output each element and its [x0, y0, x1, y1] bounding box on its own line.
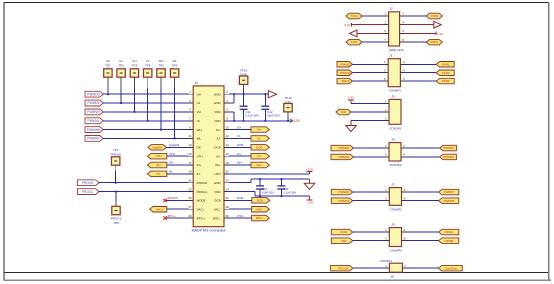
svg-text:10: 10: [226, 125, 230, 129]
svg-text:14: 14: [226, 143, 230, 147]
svg-text:PWMUL: PWMUL: [87, 101, 99, 105]
svg-text:1.5V: 1.5V: [307, 201, 313, 205]
capacitor C11: [240, 94, 259, 122]
pin 20 stub: [224, 170, 229, 174]
wire PWM03: [401, 156, 440, 158]
svg-text:VAC-: VAC-: [214, 207, 221, 211]
svg-text:PWMVL: PWMVL: [88, 119, 100, 123]
wire GND rail: [234, 93, 268, 95]
svg-text:PWMWL: PWMWL: [87, 137, 100, 141]
svg-text:DIR: DIR: [341, 239, 347, 243]
net label PAR3: [337, 78, 353, 84]
svg-text:IW+: IW+: [257, 163, 263, 167]
svg-text:P3010: P3010: [445, 230, 454, 234]
pin 19 stub: [188, 170, 193, 174]
svg-text:P3008: P3008: [445, 239, 454, 243]
svg-text:TXD1: TXD1: [350, 40, 358, 44]
connector J3: [388, 54, 401, 93]
svg-text:PAR2: PAR2: [442, 71, 450, 75]
svg-text:WH: WH: [159, 59, 164, 63]
svg-text:PWM06: PWM06: [338, 190, 349, 194]
port PWMUH: [85, 91, 103, 97]
svg-text:3: 3: [385, 236, 387, 240]
connector J4 MADK M3 Connector: [192, 81, 227, 232]
wire 3.3V rail: [234, 120, 291, 122]
svg-text:IV+: IV+: [237, 152, 242, 156]
svg-text:PAR1: PAR1: [442, 62, 450, 66]
svg-text:6: 6: [403, 77, 405, 81]
svg-text:PROG1: PROG1: [111, 217, 122, 221]
svg-text:VH: VH: [197, 110, 201, 114]
svg-text:3.3V: 3.3V: [285, 100, 291, 104]
wire IN- to pin 19: [167, 170, 189, 174]
svg-text:IPFC-: IPFC-: [213, 216, 221, 220]
port PWMVL: [85, 118, 103, 124]
wire pin 28 VAC-: [229, 208, 252, 210]
svg-text:6: 6: [226, 108, 228, 112]
net label PWM02: [331, 154, 354, 160]
svg-text:2: 2: [402, 12, 404, 16]
no-connect X pin 25: [163, 199, 167, 203]
svg-text:PWM01: PWM01: [443, 146, 454, 150]
wire PWM07: [402, 191, 439, 193]
svg-text:MODE: MODE: [197, 199, 206, 203]
pin 15 stub: [188, 152, 193, 156]
pin 13 stub: [188, 143, 193, 147]
wire PWMVH to pin 5: [103, 111, 188, 113]
svg-text:IN-: IN-: [197, 172, 201, 176]
wire JOG1: [353, 231, 390, 233]
net label PAR2: [436, 70, 454, 76]
svg-text:28: 28: [226, 205, 230, 209]
svg-text:+15V: +15V: [214, 172, 221, 176]
port PWMUL: [85, 100, 103, 106]
svg-text:IU-: IU-: [257, 137, 261, 141]
wire PWM11: [353, 63, 389, 65]
no-connect X pin 29: [163, 216, 167, 220]
svg-text:VAC-: VAC-: [256, 207, 263, 211]
svg-text:VDD: VDD: [214, 190, 221, 194]
svg-text:IU+: IU+: [257, 128, 262, 132]
test point TP13 (GND): [239, 68, 247, 84]
svg-text:IPFC-: IPFC-: [237, 214, 245, 218]
svg-text:15: 15: [188, 152, 192, 156]
wire PWMVL to pin 7: [103, 120, 188, 122]
net label GateDrive: [438, 265, 462, 271]
svg-text:VTH: VTH: [156, 154, 162, 158]
net label IW+: [251, 162, 269, 168]
svg-text:IN+: IN+: [169, 161, 174, 165]
power arrow left pin 5: [350, 30, 389, 37]
test point TP4 (VL): [144, 59, 152, 77]
pin 23 stub: [188, 187, 193, 191]
svg-text:PWM04: PWM04: [338, 199, 349, 203]
wire IN+ to pin 17: [167, 161, 189, 165]
svg-text:30: 30: [226, 214, 230, 218]
wire TXD1: [362, 41, 389, 43]
svg-text:5: 5: [189, 108, 191, 112]
svg-text:1: 1: [385, 228, 387, 232]
net label PWM10: [337, 70, 353, 76]
port PROG0: [78, 180, 100, 186]
svg-text:0.1uF 50V: 0.1uF 50V: [283, 190, 296, 194]
svg-text:24: 24: [226, 187, 230, 191]
svg-text:CON3P1: CON3P1: [389, 126, 402, 130]
wire pin 29 (IPFC+): [165, 214, 188, 218]
svg-text:PWMVH: PWMVH: [87, 110, 100, 114]
svg-text:26: 26: [226, 196, 230, 200]
pin 2 stub: [224, 90, 229, 94]
wire TP6 to row 6: [174, 77, 176, 139]
svg-text:PWM11: PWM11: [340, 62, 351, 66]
pin 1 stub: [188, 90, 193, 94]
svg-text:IV+: IV+: [257, 154, 262, 158]
pin 17 stub: [188, 161, 193, 165]
wire PAR3: [353, 80, 389, 82]
svg-text:17: 17: [188, 161, 192, 165]
svg-text:3.3V: 3.3V: [293, 119, 300, 123]
svg-text:DCB: DCB: [237, 143, 243, 147]
wire pin 12 (IU-): [229, 134, 251, 138]
svg-text:4: 4: [226, 99, 228, 103]
pin 28 stub: [224, 205, 229, 209]
net label RXD1: [426, 39, 442, 45]
svg-text:4: 4: [404, 196, 406, 200]
wire pin 16 (IV+): [229, 152, 251, 156]
svg-text:PGOUT: PGOUT: [338, 266, 349, 270]
svg-text:16: 16: [226, 152, 230, 156]
svg-text:CON4P2: CON4P2: [389, 163, 402, 167]
connector J5: [389, 94, 402, 130]
pin 27 stub: [188, 205, 193, 209]
test point TP1 (UH): [104, 59, 112, 77]
net label TXD1: [346, 39, 362, 45]
svg-text:RXD0: RXD0: [431, 14, 439, 18]
svg-text:2: 2: [404, 264, 406, 268]
svg-text:VAC+: VAC+: [197, 207, 205, 211]
svg-text:VL: VL: [197, 119, 201, 123]
net label IU+: [251, 127, 269, 133]
svg-text:27: 27: [188, 205, 192, 209]
net label IN+: [147, 162, 166, 168]
svg-text:WL: WL: [197, 137, 202, 141]
power 3.3V right pin 6: [400, 32, 444, 36]
svg-text:TP5: TP5: [158, 64, 164, 68]
svg-text:6: 6: [402, 29, 404, 33]
svg-text:2: 2: [403, 60, 405, 64]
wire TP4 to row 4: [147, 77, 149, 122]
wire TP2 to row 2: [120, 77, 122, 104]
svg-text:3.3V: 3.3V: [437, 32, 443, 36]
wire VDD pins 6,8 bracket: [229, 112, 235, 122]
power port 1.5V: [307, 196, 314, 205]
svg-text:2: 2: [403, 144, 405, 148]
svg-text:10uF 50V: 10uF 50V: [262, 190, 274, 194]
svg-text:3: 3: [385, 153, 387, 157]
test point TP12 (3.3V): [284, 96, 292, 112]
wire PWM02: [354, 156, 390, 158]
wire pin 24 1.5V bus: [229, 192, 310, 197]
svg-text:CON4P2: CON4P2: [390, 249, 403, 253]
port PWMWH: [85, 127, 103, 133]
wire VDD to J5 pin 2: [351, 111, 389, 113]
svg-text:IU-: IU-: [237, 134, 241, 138]
svg-text:GateKill: GateKill: [152, 145, 162, 149]
svg-text:19: 19: [188, 170, 192, 174]
svg-text:PROGK: PROGK: [168, 196, 179, 200]
test point TP2 (UL): [117, 59, 125, 77]
wire TP12 to 3.3V rail: [287, 112, 289, 122]
wire TP13 to GND rail: [243, 84, 245, 95]
svg-text:4: 4: [403, 153, 405, 157]
svg-text:4: 4: [404, 236, 406, 240]
svg-text:J8: J8: [391, 275, 395, 279]
svg-text:VDD: VDD: [341, 110, 347, 114]
pin 24 stub: [224, 187, 229, 191]
ground symbol J5: [346, 121, 357, 132]
svg-text:2: 2: [404, 188, 406, 192]
svg-text:PAR0: PAR0: [442, 79, 450, 83]
net label VDD: [336, 109, 351, 115]
wire pin 26 DCB: [229, 196, 252, 200]
power port 3.3V J5: [348, 95, 354, 103]
svg-text:PROG1: PROG1: [197, 190, 208, 194]
net label PWM03: [440, 154, 457, 160]
svg-text:PWM07: PWM07: [444, 190, 455, 194]
wire pin 22 GND bus: [229, 179, 310, 183]
net label PWM04: [331, 198, 352, 204]
net label P3008: [439, 238, 459, 244]
svg-text:3.3V: 3.3V: [348, 95, 354, 99]
svg-text:GND: GND: [214, 181, 222, 185]
wire pin 14 (DCB): [229, 143, 251, 147]
svg-text:20: 20: [226, 170, 230, 174]
connector J7: [389, 183, 402, 212]
svg-text:21: 21: [188, 179, 192, 183]
svg-text:UH: UH: [197, 92, 201, 96]
net label GateKill: [148, 145, 166, 151]
svg-text:TP6: TP6: [172, 64, 178, 68]
net label PWM05: [439, 198, 459, 204]
pin 29 stub: [188, 214, 193, 218]
wire pin 10 (IU+): [229, 125, 251, 129]
svg-text:PWMUH: PWMUH: [87, 92, 100, 96]
wire PGOUT: [353, 267, 389, 269]
pin 7 stub: [188, 117, 193, 121]
wire TXD0: [362, 15, 389, 17]
svg-text:DCB: DCB: [256, 145, 262, 149]
svg-text:TP1: TP1: [105, 64, 111, 68]
svg-text:CON2P1: CON2P1: [380, 259, 393, 263]
net label PWM00: [331, 145, 354, 151]
svg-text:RXD1: RXD1: [431, 40, 439, 44]
svg-text:7: 7: [189, 117, 191, 121]
wire TP7 to PROG0: [115, 165, 117, 184]
svg-text:IPFC+: IPFC+: [197, 216, 206, 220]
svg-text:PWM05: PWM05: [444, 199, 455, 203]
pin 8 stub: [224, 117, 229, 121]
net label TXD0: [346, 13, 362, 19]
svg-text:TP2: TP2: [118, 64, 124, 68]
power arrow GND rail: [268, 91, 276, 98]
wire TP3 to row 3: [133, 77, 135, 113]
svg-text:PWM00: PWM00: [338, 146, 349, 150]
pin 18 stub: [224, 161, 229, 165]
svg-text:PROG1: PROG1: [82, 190, 94, 194]
svg-text:22: 22: [226, 179, 230, 183]
svg-text:PWMWH: PWMWH: [87, 128, 101, 132]
net label PWM07: [439, 189, 459, 195]
svg-text:SWD LINK: SWD LINK: [389, 48, 405, 52]
svg-text:GateDrive: GateDrive: [445, 266, 458, 270]
svg-text:TP8: TP8: [113, 221, 119, 225]
svg-text:2: 2: [385, 108, 387, 112]
wire RXD1: [400, 41, 427, 43]
capacitor C14: [277, 178, 296, 197]
svg-text:IV+: IV+: [216, 154, 221, 158]
pin 9 stub: [188, 125, 193, 129]
net label DCB: [252, 198, 270, 204]
svg-text:MADK M3 Connector: MADK M3 Connector: [192, 229, 227, 233]
power port +15V: [306, 167, 313, 174]
svg-text:DCB: DCB: [257, 199, 263, 203]
wire PWM04: [353, 200, 390, 202]
ground symbol: [304, 179, 315, 189]
svg-text:1: 1: [384, 12, 386, 16]
svg-text:PAR3: PAR3: [342, 79, 350, 83]
power tap 3.3V: [290, 119, 301, 123]
svg-text:UH: UH: [106, 59, 110, 63]
wire pin 30 IPFC-: [229, 214, 252, 218]
wire PWMWH to pin 9: [103, 129, 188, 131]
wire 3.3V to J5 pin 1: [351, 103, 389, 105]
wire PWM01: [401, 147, 440, 149]
svg-text:IN-: IN-: [157, 172, 161, 176]
svg-text:PWM03: PWM03: [443, 155, 454, 159]
wire TP5 to row 5: [160, 77, 162, 131]
net label IN-: [147, 171, 166, 177]
svg-text:11: 11: [189, 134, 192, 138]
svg-text:13: 13: [188, 143, 192, 147]
wire PROG0 to pin 21: [99, 182, 188, 184]
svg-text:IPFC-: IPFC-: [256, 216, 264, 220]
net label JOG1: [331, 229, 352, 235]
pin 26 stub: [224, 196, 229, 200]
svg-text:VH: VH: [132, 59, 136, 63]
test point TP6 (WL): [170, 59, 178, 77]
svg-text:GND: GND: [240, 72, 248, 76]
connector J6: [389, 138, 402, 167]
svg-text:JOG1: JOG1: [340, 230, 348, 234]
svg-text:IN-: IN-: [169, 170, 173, 174]
net label VTH: [147, 153, 166, 159]
capacitor C12: [261, 93, 280, 122]
svg-text:1: 1: [385, 99, 387, 103]
svg-text:PROG0: PROG0: [110, 153, 121, 157]
svg-text:12: 12: [226, 134, 230, 138]
svg-text:23: 23: [188, 187, 192, 191]
net label PWM01: [440, 145, 457, 151]
pin 4 stub: [224, 99, 229, 103]
svg-text:1: 1: [385, 144, 387, 148]
connector J8: [380, 259, 403, 278]
svg-text:2: 2: [226, 90, 228, 94]
svg-text:VTH: VTH: [197, 154, 203, 158]
wire pin 25 (MODE): [165, 196, 188, 200]
wire PWM00: [354, 147, 390, 149]
svg-text:IW+: IW+: [237, 161, 243, 165]
svg-text:3: 3: [384, 68, 386, 72]
wire DIR: [353, 240, 390, 242]
svg-text:IW+: IW+: [215, 163, 221, 167]
net label DIR: [331, 238, 352, 244]
svg-text:OK: OK: [197, 146, 201, 150]
svg-text:J3: J3: [389, 54, 393, 58]
svg-text:J5: J5: [391, 94, 395, 98]
svg-text:VDD: VDD: [214, 119, 221, 123]
svg-text:GND: GND: [214, 101, 222, 105]
pin 6 stub: [224, 108, 229, 112]
svg-text:25: 25: [188, 196, 192, 200]
net label PWM11: [337, 62, 353, 68]
svg-text:TP4: TP4: [145, 64, 151, 68]
wire PWMUH to pin 1: [103, 93, 188, 95]
svg-text:J2: J2: [389, 7, 393, 11]
svg-text:IPFC+: IPFC+: [168, 214, 177, 218]
svg-text:IU+: IU+: [216, 128, 221, 132]
svg-text:3.3V: 3.3V: [344, 23, 350, 27]
pin 30 stub: [224, 214, 229, 218]
net label DCB: [251, 145, 269, 151]
svg-text:VL: VL: [146, 59, 150, 63]
net label RXD0: [426, 13, 442, 19]
svg-text:PROG0: PROG0: [197, 181, 208, 185]
svg-text:1: 1: [385, 188, 387, 192]
wire RXD0: [400, 15, 427, 17]
net label P3010: [439, 229, 459, 235]
wire GND pins 2,4 bracket: [229, 93, 235, 103]
net label PAR0: [436, 78, 454, 84]
pin 5 stub: [188, 108, 193, 112]
svg-text:3: 3: [189, 99, 191, 103]
svg-text:3: 3: [385, 196, 387, 200]
svg-text:UL: UL: [119, 59, 123, 63]
svg-text:29: 29: [188, 214, 192, 218]
net label VAC+: [150, 207, 167, 213]
wire PWMWL to pin 11: [103, 137, 188, 139]
svg-text:GND: GND: [214, 92, 222, 96]
svg-text:J9: J9: [392, 223, 396, 227]
pin 22 stub: [224, 179, 229, 183]
svg-text:CON6P2: CON6P2: [389, 89, 402, 93]
wire GateDrive: [402, 267, 438, 269]
svg-text:VAC+: VAC+: [156, 207, 164, 211]
connector J9: [389, 223, 402, 253]
wire GND to J5 pin 3: [351, 120, 389, 122]
wire pin 18 (IW+): [229, 161, 251, 165]
svg-text:1: 1: [189, 90, 191, 94]
svg-text:J4: J4: [195, 81, 199, 85]
svg-text:CON4P2: CON4P2: [390, 207, 403, 211]
svg-text:0.1uF 50V: 0.1uF 50V: [246, 113, 259, 117]
svg-text:4: 4: [403, 68, 405, 72]
net label PWM06: [331, 189, 352, 195]
test point TP8 (PROG1): [111, 206, 122, 225]
pin 25 stub: [188, 196, 193, 200]
net label IU-: [251, 136, 269, 142]
net label IV+: [251, 153, 269, 159]
svg-text:PWM02: PWM02: [338, 155, 349, 159]
